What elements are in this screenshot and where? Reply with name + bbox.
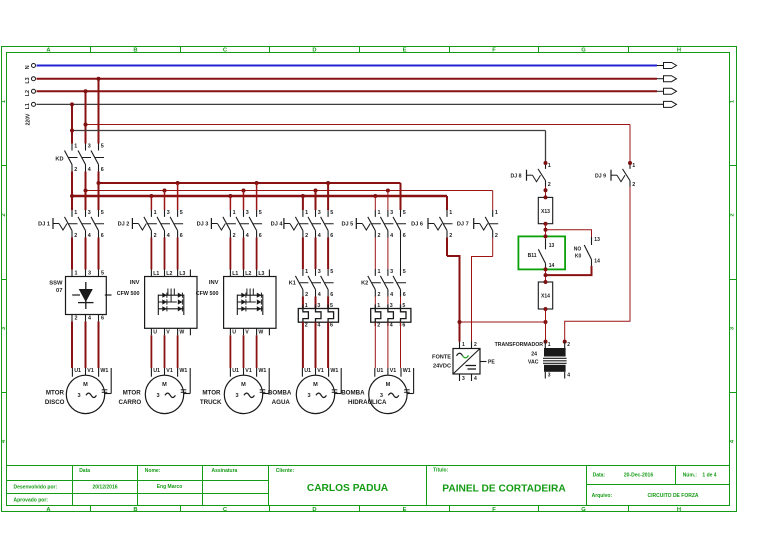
contact B11 13-14	[545, 239, 547, 250]
svg-text:V1: V1	[245, 368, 252, 374]
svg-text:6: 6	[403, 233, 406, 239]
svg-text:Arquivo:: Arquivo:	[592, 493, 613, 499]
wire DJ7 to FONTE pin2	[492, 238, 494, 257]
terminal N	[32, 64, 36, 68]
svg-text:3: 3	[548, 373, 551, 379]
svg-text:2: 2	[378, 233, 381, 239]
wire overload 2 to motor BOMBA HIDRAULICA	[374, 322, 376, 368]
node bus junctions	[97, 181, 101, 185]
svg-text:G: G	[581, 47, 586, 53]
svg-text:X13: X13	[541, 209, 550, 215]
svg-text:4: 4	[390, 292, 393, 298]
wire K1 to overload 1	[302, 297, 304, 309]
svg-text:2: 2	[449, 233, 452, 239]
svg-text:W: W	[258, 330, 263, 336]
svg-text:X14: X14	[541, 294, 550, 300]
svg-text:MTOR: MTOR	[202, 389, 221, 396]
svg-text:INV: INV	[130, 280, 140, 286]
terminal L1 220V	[32, 102, 36, 106]
svg-text:1: 1	[305, 210, 308, 216]
svg-text:L2: L2	[25, 90, 31, 96]
svg-text:G: G	[581, 507, 586, 513]
svg-text:BOMBA: BOMBA	[268, 389, 292, 396]
terminal L3	[32, 77, 36, 81]
svg-text:4: 4	[317, 323, 320, 329]
svg-text:5: 5	[101, 143, 104, 149]
breaker DJ2	[131, 218, 133, 229]
svg-text:5: 5	[402, 303, 405, 309]
svg-text:N: N	[25, 65, 31, 69]
overload relay FT1	[298, 309, 338, 323]
wire DJ3 to inverter 2	[229, 238, 231, 270]
svg-text:5: 5	[330, 269, 333, 275]
svg-text:2: 2	[75, 316, 78, 322]
svg-text:1: 1	[449, 210, 452, 216]
svg-text:U1: U1	[232, 368, 239, 374]
wire feeds to DJ4	[302, 196, 304, 210]
svg-text:1: 1	[548, 342, 551, 348]
svg-text:DJ 1: DJ 1	[38, 222, 50, 228]
svg-text:4: 4	[88, 233, 91, 239]
svg-text:MTOR: MTOR	[123, 389, 142, 396]
svg-text:PE: PE	[488, 360, 495, 366]
svg-text:1: 1	[632, 163, 635, 169]
svg-text:2: 2	[377, 323, 380, 329]
svg-text:E: E	[403, 47, 407, 53]
terminal X13	[538, 197, 552, 223]
arrow L2	[664, 88, 677, 94]
svg-text:5: 5	[403, 269, 406, 275]
svg-text:FONTE: FONTE	[432, 355, 451, 361]
terminal X14	[538, 282, 552, 309]
svg-text:2: 2	[632, 182, 635, 188]
svg-text:F: F	[492, 507, 496, 513]
svg-text:V1: V1	[390, 368, 397, 374]
svg-text:3: 3	[390, 303, 393, 309]
svg-text:K1: K1	[289, 280, 296, 286]
svg-text:2: 2	[567, 342, 570, 348]
breaker DJ3	[210, 218, 212, 229]
svg-text:Aprovado por:: Aprovado por:	[14, 498, 49, 504]
motor M4 BOMBA AGUA	[301, 368, 303, 377]
svg-text:Assinatura: Assinatura	[212, 468, 238, 474]
svg-text:U1: U1	[304, 368, 311, 374]
svg-text:2: 2	[305, 323, 308, 329]
svg-text:3: 3	[167, 210, 170, 216]
frame row ticks and numbers	[2, 165, 7, 167]
svg-text:3: 3	[318, 210, 321, 216]
wire DJ4 to K1	[302, 238, 304, 270]
svg-text:E: E	[403, 507, 407, 513]
svg-text:3: 3	[246, 210, 249, 216]
title block grid	[7, 465, 730, 467]
svg-text:3: 3	[307, 393, 310, 399]
svg-text:MTOR: MTOR	[46, 389, 65, 396]
svg-text:2: 2	[1, 213, 7, 216]
svg-text:NO: NO	[574, 247, 582, 253]
svg-text:TRUCK: TRUCK	[200, 399, 222, 406]
wire DJ8 to X13	[545, 187, 547, 198]
svg-text:1: 1	[378, 210, 381, 216]
svg-text:CARRO: CARRO	[119, 399, 142, 406]
wire KD pin4 to bus2	[85, 172, 87, 191]
svg-text:1: 1	[305, 303, 308, 309]
wire K2 to overload 2	[374, 297, 376, 309]
svg-text:B: B	[133, 507, 137, 513]
svg-text:KD: KD	[55, 156, 63, 162]
svg-text:Eng Marco: Eng Marco	[157, 484, 183, 490]
svg-text:220V: 220V	[26, 113, 32, 125]
sensor B11 box	[518, 236, 565, 269]
svg-text:TRANSFORMADOR: TRANSFORMADOR	[495, 342, 544, 348]
svg-text:H: H	[677, 507, 681, 513]
svg-text:Desenvolvido por:: Desenvolvido por:	[14, 485, 58, 491]
svg-text:6: 6	[403, 292, 406, 298]
wire DJ9 to transformer pin2	[565, 187, 630, 342]
breaker DJ1	[52, 218, 54, 229]
svg-text:1: 1	[495, 210, 498, 216]
svg-text:24VDC: 24VDC	[433, 364, 451, 370]
wire bus phase C	[72, 195, 447, 197]
arrow N	[664, 63, 677, 69]
svg-text:DJ 8: DJ 8	[511, 173, 522, 179]
wire bus L3	[37, 78, 658, 80]
svg-text:U: U	[153, 330, 157, 336]
svg-text:2: 2	[74, 233, 77, 239]
svg-text:M: M	[386, 382, 391, 388]
svg-text:6: 6	[259, 233, 262, 239]
svg-text:L3: L3	[25, 77, 31, 83]
wire overload 1 to motor BOMBA AGUA	[302, 322, 304, 368]
wire bus N	[37, 65, 658, 67]
svg-text:5: 5	[259, 210, 262, 216]
wire DJ1 to SSW	[71, 238, 73, 270]
svg-text:1: 1	[74, 143, 77, 149]
arrow L3	[664, 76, 677, 82]
svg-text:1: 1	[233, 210, 236, 216]
svg-text:PAINEL DE CORTADEIRA: PAINEL DE CORTADEIRA	[442, 484, 566, 495]
svg-text:3: 3	[88, 271, 91, 277]
svg-text:L1: L1	[25, 103, 31, 109]
svg-text:Núm.:: Núm.:	[683, 472, 698, 478]
svg-text:V1: V1	[317, 368, 324, 374]
wire feeds to DJ5	[374, 196, 376, 210]
breaker DJ5	[355, 218, 357, 229]
svg-text:4: 4	[167, 233, 170, 239]
svg-text:4: 4	[246, 233, 249, 239]
svg-text:V: V	[245, 330, 249, 336]
svg-text:6: 6	[330, 323, 333, 329]
svg-text:Nome:: Nome:	[145, 468, 161, 474]
svg-text:CARLOS PADUA: CARLOS PADUA	[307, 483, 389, 494]
svg-text:20/12/2016: 20/12/2016	[92, 485, 117, 491]
svg-text:1: 1	[75, 271, 78, 277]
overload relay FT2	[371, 309, 411, 323]
svg-text:5: 5	[403, 210, 406, 216]
svg-text:2: 2	[74, 167, 77, 173]
svg-text:2: 2	[378, 292, 381, 298]
svg-text:2: 2	[474, 342, 477, 348]
svg-text:3: 3	[235, 393, 238, 399]
svg-text:13: 13	[549, 243, 555, 249]
svg-text:1: 1	[305, 269, 308, 275]
svg-text:D: D	[312, 47, 316, 53]
svg-text:2: 2	[305, 233, 308, 239]
svg-text:2: 2	[548, 182, 551, 188]
wire X14 to transformer pin1	[545, 309, 547, 342]
svg-text:BOMBA: BOMBA	[341, 389, 365, 396]
motor M3 MTOR TRUCK	[229, 368, 231, 377]
svg-text:2: 2	[495, 233, 498, 239]
svg-text:5: 5	[101, 210, 104, 216]
svg-text:DJ 9: DJ 9	[595, 173, 606, 179]
svg-text:5: 5	[330, 303, 333, 309]
svg-text:V: V	[166, 330, 170, 336]
svg-text:6: 6	[101, 316, 104, 322]
svg-text:4: 4	[474, 376, 477, 382]
svg-text:4: 4	[88, 316, 91, 322]
svg-text:24: 24	[531, 351, 537, 357]
wire L2 to KD pin3	[85, 91, 87, 143]
svg-text:1: 1	[378, 269, 381, 275]
wire branch to NO K0 contact	[546, 230, 592, 237]
svg-text:07: 07	[56, 288, 62, 294]
svg-text:VAC: VAC	[528, 359, 539, 365]
svg-text:W1: W1	[100, 368, 108, 374]
svg-text:3: 3	[462, 376, 465, 382]
svg-text:6: 6	[180, 233, 183, 239]
svg-text:5: 5	[101, 271, 104, 277]
svg-text:W: W	[179, 330, 184, 336]
wire SSW to motor DISCO	[71, 321, 73, 368]
svg-text:W1: W1	[179, 368, 187, 374]
wire inverter 1 to motor CARRO	[150, 335, 152, 368]
svg-text:U1: U1	[74, 368, 81, 374]
svg-text:DISCO: DISCO	[45, 399, 65, 406]
svg-text:4: 4	[88, 167, 91, 173]
wire feeds to DJ3	[229, 196, 231, 210]
svg-text:3: 3	[77, 393, 80, 399]
motor M2 MTOR CARRO	[150, 368, 152, 377]
svg-text:SSW: SSW	[49, 280, 63, 286]
svg-text:3: 3	[390, 269, 393, 275]
svg-text:6: 6	[402, 323, 405, 329]
wire B11 and K0 outputs join	[544, 267, 548, 271]
wire KD pin6 to bus1	[98, 172, 100, 184]
svg-text:DJ 5: DJ 5	[341, 222, 353, 228]
svg-text:DJ 4: DJ 4	[271, 222, 284, 228]
svg-text:W1: W1	[258, 368, 266, 374]
svg-text:3: 3	[317, 303, 320, 309]
wire inverter 2 to motor TRUCK	[229, 335, 231, 368]
svg-text:U1: U1	[377, 368, 384, 374]
svg-text:2: 2	[730, 213, 736, 216]
svg-text:CIRCUITO DE FORZA: CIRCUITO DE FORZA	[647, 493, 698, 499]
svg-text:4: 4	[318, 292, 321, 298]
svg-text:14: 14	[549, 263, 555, 269]
svg-text:HIDRAULICA: HIDRAULICA	[348, 399, 387, 406]
svg-text:CFW 500: CFW 500	[117, 291, 140, 297]
motor M1 MTOR DISCO	[71, 368, 73, 377]
wire bus phase A	[99, 182, 401, 184]
svg-text:DJ 6: DJ 6	[411, 222, 423, 228]
svg-text:Data: Data	[79, 468, 90, 474]
wire bus L2	[37, 90, 658, 92]
wire DJ2 to inverter 1	[150, 238, 152, 270]
svg-text:1: 1	[154, 210, 157, 216]
motor M5 BOMBA HIDRAULICA	[374, 368, 376, 377]
arrow L1	[664, 101, 677, 107]
svg-text:H: H	[677, 47, 681, 53]
svg-text:14: 14	[594, 258, 600, 264]
svg-text:1 de 4: 1 de 4	[702, 472, 716, 478]
wire transformer primary net	[460, 321, 546, 323]
wire feeds to DJ2	[150, 196, 152, 210]
wire KD pin2 to bus3	[71, 172, 73, 197]
svg-text:B11: B11	[528, 253, 537, 259]
svg-text:U: U	[232, 330, 236, 336]
svg-text:6: 6	[101, 167, 104, 173]
svg-text:3: 3	[390, 210, 393, 216]
svg-text:M: M	[241, 382, 246, 388]
frame column ticks and letters	[90, 47, 92, 53]
svg-text:1: 1	[548, 163, 551, 169]
wire aux gray to DJ8	[72, 130, 546, 132]
breaker DJ7	[473, 218, 475, 229]
svg-text:Cliente:: Cliente:	[276, 468, 295, 474]
drawing frame inner border	[7, 53, 730, 506]
svg-text:3: 3	[318, 269, 321, 275]
svg-text:K0: K0	[575, 254, 582, 260]
wire bus to DJ6 and DJ6 to FONTE pin1	[446, 238, 448, 257]
wire L1 to KD pin1	[71, 104, 73, 143]
svg-text:K2: K2	[361, 280, 368, 286]
svg-text:5: 5	[330, 210, 333, 216]
svg-text:M: M	[313, 382, 318, 388]
svg-text:V1: V1	[166, 368, 173, 374]
svg-text:3: 3	[88, 210, 91, 216]
svg-text:M: M	[162, 382, 167, 388]
svg-text:3: 3	[156, 393, 159, 399]
terminal L2	[32, 89, 36, 93]
svg-text:Data:: Data:	[593, 472, 606, 478]
svg-text:DJ 7: DJ 7	[457, 222, 469, 228]
wire aux red to DJ9	[86, 124, 631, 126]
svg-text:DJ 3: DJ 3	[197, 222, 209, 228]
svg-text:1: 1	[74, 210, 77, 216]
svg-text:4: 4	[390, 323, 393, 329]
wire bus phase B	[86, 190, 493, 192]
svg-text:2: 2	[305, 292, 308, 298]
svg-text:6: 6	[330, 292, 333, 298]
wire DJ5 to K2	[374, 238, 376, 270]
wire feeds to DJ1	[71, 196, 73, 210]
breaker DJ4	[283, 218, 285, 229]
svg-text:AGUA: AGUA	[272, 399, 291, 406]
svg-text:U1: U1	[153, 368, 160, 374]
svg-text:DJ 2: DJ 2	[118, 222, 130, 228]
svg-text:W1: W1	[403, 368, 411, 374]
svg-text:2: 2	[233, 233, 236, 239]
svg-text:13: 13	[594, 237, 600, 243]
svg-text:5: 5	[180, 210, 183, 216]
svg-text:W1: W1	[330, 368, 338, 374]
svg-text:B: B	[133, 47, 137, 53]
svg-text:M: M	[83, 382, 88, 388]
svg-text:D: D	[312, 507, 316, 513]
wire bus L1	[37, 103, 664, 105]
svg-text:20-Dec-2016: 20-Dec-2016	[624, 472, 653, 478]
svg-text:4: 4	[318, 233, 321, 239]
svg-text:1: 1	[377, 303, 380, 309]
breaker DJ6	[427, 218, 429, 229]
svg-text:V1: V1	[87, 368, 94, 374]
svg-text:CFW 500: CFW 500	[196, 291, 219, 297]
svg-text:6: 6	[101, 233, 104, 239]
wire X13 to B11	[545, 224, 547, 239]
svg-text:4: 4	[567, 373, 570, 379]
svg-text:3: 3	[88, 143, 91, 149]
svg-text:INV: INV	[209, 280, 219, 286]
svg-text:2: 2	[154, 233, 157, 239]
svg-text:F: F	[492, 47, 496, 53]
svg-text:6: 6	[330, 233, 333, 239]
svg-text:4: 4	[390, 233, 393, 239]
wire L3 to KD pin5	[98, 79, 100, 144]
svg-text:Título:: Título:	[433, 468, 449, 474]
svg-text:1: 1	[462, 342, 465, 348]
